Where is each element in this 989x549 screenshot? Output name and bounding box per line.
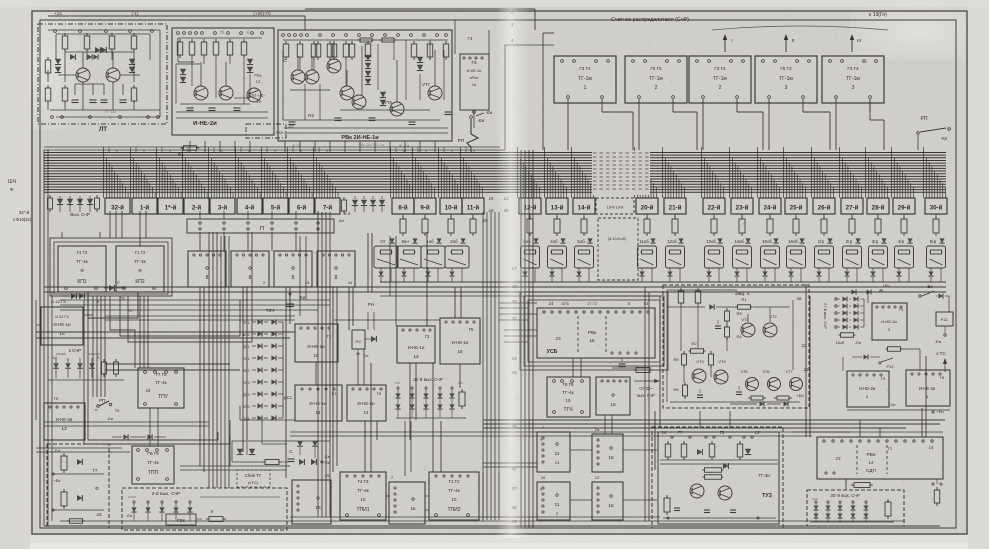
block РВк top pins: [282, 34, 285, 37]
ТУЗ mid resistors stacked: [703, 469, 705, 471]
diode row box к СчР: [48, 356, 126, 386]
block ЛТ extra wires: [55, 34, 57, 60]
block Ф 16 (15): [292, 480, 331, 524]
wire verticals under Ф-8 block 1: [203, 287, 205, 472]
tap fan wires from bus to boxes: [106, 158, 108, 198]
node box 24-й: [759, 198, 781, 214]
node box 1-й: [132, 198, 157, 214]
resistor and cap Сбой ТУ: [232, 461, 262, 463]
transistor Q1 ТУЗ: [690, 484, 704, 498]
wire right cluster stubs: [570, 449, 592, 451]
block РВк extra wires: [283, 39, 448, 41]
block И-НЕ-2и diodes: [180, 69, 186, 75]
wires upper mid verticals: [294, 232, 296, 324]
long collector wires below cells: [380, 281, 946, 283]
arrow output III: [851, 36, 853, 52]
block Ф 16 d: [592, 482, 623, 520]
wires Г5 block: [454, 20, 456, 54]
node box 28-й: [867, 198, 889, 214]
node box 26-й: [813, 198, 835, 214]
block РВи 14 СДП: [817, 437, 943, 479]
transistor VT2 in ЛТ: [106, 68, 120, 82]
dashed block 30'-й вых СчР: [807, 490, 904, 526]
ТУЗ diodes: [697, 449, 702, 455]
block ТПИ1: [340, 472, 386, 520]
wire trunk main right 520-535: [520, 150, 522, 528]
node box 21-й: [664, 198, 686, 214]
wires right column verticals: [805, 288, 807, 410]
block И-НЕ-2и capacitors: [187, 107, 194, 109]
Защ bottom resistors: [748, 397, 751, 399]
resistor mid: [710, 351, 712, 354]
block х Г6: [88, 292, 138, 318]
block Ф 16 right: [596, 377, 630, 415]
block ТУЗ inner solid border: [658, 432, 779, 524]
diode group 32-й вых: [397, 387, 399, 389]
node box 8-й: [392, 198, 414, 214]
wire horizontals 460s right: [483, 462, 537, 464]
wire trunk П extra: [220, 236, 222, 488]
node box 12-й: [519, 198, 541, 214]
block РВк resistors row: [285, 41, 287, 44]
wire loop nest left-center 5: [128, 232, 252, 342]
block П: [187, 219, 334, 233]
block ЛТ lower resistors: [64, 85, 66, 88]
wire across 296 right: [660, 295, 946, 297]
block ЛТ outline: [38, 24, 167, 124]
ТУЗ horizontal rails: [660, 459, 778, 461]
tap fan wires rising above bus: [108, 147, 110, 153]
brace over arrows: [712, 26, 888, 30]
capacitor -Еи at top center: [289, 296, 291, 302]
transistor VT4b in И-НЕ-2и: [247, 88, 261, 102]
node box 2-й: [184, 198, 209, 214]
diode group between 7-й and 8-й: [343, 197, 345, 200]
cell 824: [815, 246, 834, 268]
cell 852: [843, 246, 862, 268]
wire loop nest left-center 4: [120, 296, 240, 336]
block Г2 И-НЕ-1и 13: [397, 326, 435, 363]
block Г5 И-НЕ-1и outline: [460, 54, 489, 110]
block ТГ-1м 5 (СчР): [822, 56, 884, 103]
node box 15-й...19-й dashed: [596, 198, 634, 214]
block Г1 И-НЕ-1и 15: [295, 324, 338, 362]
node box 7-й: [315, 198, 340, 214]
wire run into Г1 block from left: [36, 331, 295, 333]
transistor VT3 in И-НЕ-2и: [194, 86, 208, 100]
wire horizontals left of УСБ: [499, 302, 537, 304]
block УСБ: [537, 308, 655, 358]
Защ diode left: [709, 304, 714, 309]
wires under Ф-8 blocks: [188, 291, 355, 293]
wire from РЧ down: [357, 356, 359, 385]
transistor VT4 in И-НЕ-2и: [219, 86, 233, 100]
block ТГ-1м 2 (СчР): [625, 56, 687, 103]
Защ bottom diodes: [760, 402, 765, 407]
resistor R3: [726, 308, 728, 311]
transistor VT5d: [340, 86, 354, 100]
transistor VT1: [741, 323, 755, 337]
wire verticals 460 region: [454, 287, 456, 318]
wire СчР right exit: [869, 99, 871, 120]
wire РВк to bus left: [189, 141, 191, 152]
block РВк internal wires: [282, 50, 284, 120]
node box 9-й: [414, 198, 436, 214]
wire bundle left vertical edge: [43, 150, 45, 526]
cell 878: [869, 246, 888, 268]
wires bottom right horizontals: [480, 440, 537, 442]
node box 10-й: [440, 198, 462, 214]
relay РЗК: [166, 514, 196, 525]
block РВк capacitors: [289, 121, 296, 123]
resistor before Р12: [886, 348, 888, 350]
node box 27-й: [841, 198, 863, 214]
cell 433: [421, 246, 445, 268]
wire loop around КП blocks: [50, 238, 172, 296]
diode Р12 line: [864, 355, 869, 360]
wire loop nest left-center 3: [110, 296, 135, 368]
block РВк diode column: [365, 55, 371, 61]
wire loop nest left-center 2: [84, 300, 230, 444]
cell 457: [445, 246, 469, 268]
resistor 30'-й вых: [887, 499, 889, 502]
wire verticals under Ф-8 block 2: [246, 287, 248, 440]
wires Сбой ТУ corridor: [231, 441, 233, 462]
dashed omission box below 15-19: [598, 218, 638, 280]
wires РН area verticals: [367, 312, 369, 330]
wires mid-bottom joins: [229, 420, 231, 466]
block Ф-8 #2: [231, 251, 269, 287]
diodes above ТПП: [123, 434, 128, 439]
wire trunk П down: [208, 232, 210, 488]
node box 25-й: [785, 198, 807, 214]
wire trunk center-left vertical: [317, 212, 319, 517]
wire left horizontals y448: [36, 447, 122, 449]
wire П pins down to Ф-8: [199, 232, 201, 251]
cell 796: [787, 246, 806, 268]
resistor below РВи: [851, 484, 854, 486]
wire top rail to RVk: [305, 8, 535, 10]
bus collector wires above: [44, 146, 500, 148]
wires into КП: [65, 211, 67, 246]
wires trunk to УСБ left: [504, 329, 537, 331]
relay Р13: [948, 296, 950, 312]
transistor VT1 in ЛТ: [76, 68, 90, 82]
wires П to boxes: [199, 211, 201, 219]
transistor VT5b: [305, 70, 319, 84]
wire loop nest left-center 1: [88, 296, 218, 440]
transistor VT7: [428, 86, 442, 100]
wire verticals under Ф-8 block 3: [289, 287, 291, 324]
cell 770: [761, 246, 780, 268]
wire loop around УСБ outer: [524, 296, 664, 366]
diodes left of Сбой ТУ: [237, 449, 243, 455]
wires lower connections a: [180, 465, 230, 467]
block ЛТ internal resistors: [64, 33, 66, 36]
resistor R1 below И-НЕ-2и: [181, 147, 184, 149]
block Ф 11 b: [537, 482, 570, 520]
wire verticals under Ф-8 block 4: [332, 287, 334, 472]
node box 30-й: [925, 198, 947, 214]
wire verticals РВи up: [805, 284, 807, 437]
node box 5-й: [263, 198, 288, 214]
transistor VT5a: [291, 70, 305, 84]
transistor VT5c: [327, 59, 341, 73]
block КП2: [116, 246, 164, 292]
node box 20-й: [636, 198, 658, 214]
wires horizontal across under П: [230, 315, 480, 317]
wires Защ down: [699, 411, 701, 427]
wires bottom trunk joins: [482, 472, 484, 521]
block Ф-8 #16: [317, 251, 355, 287]
block ТПП: [132, 446, 174, 484]
block Г6 И-НЕ-2и 14: [347, 385, 386, 421]
cell 647: [638, 246, 657, 268]
transistor VT2: [763, 323, 777, 337]
block РВк horizontal resistors: [357, 39, 360, 41]
node box 29-й: [893, 198, 915, 214]
wires lower horizontals 2: [122, 439, 180, 441]
wires П heavy pair down: [367, 233, 369, 292]
node box 23-й: [731, 198, 753, 214]
speckle noise: [253, 295, 254, 296]
wire РВи bottom to 30 box: [845, 479, 847, 490]
wire verticals Защ to ТУЗ: [659, 296, 661, 427]
block ЛТ wires: [48, 29, 160, 31]
transistor Q2 ТУЗ: [718, 486, 732, 500]
block ЛТ capacitors: [72, 99, 79, 101]
diodes in 2-й вых: [133, 501, 135, 503]
wires left cluster a: [36, 324, 41, 326]
Защ internal wires: [666, 290, 668, 402]
block Ф-8 #1: [188, 251, 226, 287]
wires ТПУ to ТПП verticals: [149, 408, 151, 446]
arrow output II: [785, 36, 787, 52]
node box 13-й: [546, 198, 568, 214]
wire ТПИ interconnect: [386, 495, 389, 497]
diode group left of 32-й box: [49, 195, 51, 198]
transistor VT6: [390, 102, 404, 116]
transistor VT5e: [352, 95, 366, 109]
block И-НЕ-2и wires: [177, 38, 179, 62]
dashed omission zone over bus: [592, 151, 650, 195]
horizontal bus band wires: [44, 152, 946, 154]
cell 386: [374, 246, 398, 268]
wire trunk left cluster: [92, 296, 94, 397]
cell 714: [705, 246, 724, 268]
block Г6 И-НЕ-2и lower: [906, 370, 950, 406]
wire horizontals y432-438 left half: [290, 431, 850, 433]
block Защ.4 dashed outline: [663, 285, 809, 408]
transistor VT3: [692, 369, 706, 383]
horizontal long wires bottom: [290, 516, 660, 518]
wires 2-й вых: [196, 518, 202, 520]
wire verticals center 350: [348, 287, 350, 330]
block ТПИ2: [429, 472, 479, 520]
wires УСБ to ТГЧ: [572, 358, 574, 377]
block ТГ-1м 4 (СчР): [755, 56, 817, 103]
wire trunk mid 480-500: [482, 212, 484, 520]
block РВк 2И-НЕ-1и outline: [278, 30, 452, 141]
block Ф 16 c: [592, 434, 623, 472]
wires right column net: [867, 292, 869, 303]
block ТГ-1м 3 (СчР): [689, 56, 751, 103]
wire left horizontals y422: [44, 421, 209, 423]
block И-НЕ-2и extra wires: [178, 37, 262, 39]
ТУЗ caps: [674, 507, 680, 509]
block ТГЧ: [547, 377, 590, 417]
wire top rail +13: [48, 15, 305, 17]
wire verticals center 365-380: [364, 421, 366, 472]
block И-НЕ-2и top pins: [177, 32, 180, 35]
block Ф 11 a: [537, 432, 570, 472]
wires КП to ТПУ verticals: [139, 296, 141, 368]
dashed block 2-й вых СчР: [122, 488, 287, 530]
cell 584: [575, 246, 594, 268]
node box 11-й: [462, 198, 484, 214]
block КП1: [58, 246, 106, 292]
wire СчР left entry: [505, 44, 554, 46]
block Г3 И-НЕ-2и 1: [872, 303, 907, 340]
wires horizontal mid-left y316: [105, 315, 295, 317]
wires under П right: [299, 236, 301, 316]
wires across center-left: [36, 419, 94, 421]
tall taps at box boundaries: [103, 147, 105, 198]
wires Ф blocks: [570, 449, 592, 451]
wires 32-1 boxes down: [139, 211, 141, 246]
block Г5 И-НЕ-1и 15 right: [440, 318, 480, 364]
diodes 30'-й вых: [815, 501, 817, 503]
diodes above х Г6: [109, 285, 114, 291]
node box 6-й: [289, 198, 314, 214]
cell 675: [666, 246, 685, 268]
diode array right 5 rows: [835, 298, 837, 300]
label Сбой ТУ: [237, 470, 270, 487]
diodes above cap C: [297, 441, 303, 446]
resistor column under boxes: [402, 214, 404, 219]
resistor R4: [726, 324, 728, 327]
cell 557: [548, 246, 567, 268]
arrow output I: [724, 36, 726, 52]
block И-НЕ-2и outline: [172, 28, 274, 135]
block Г3 И-НЕ-1и 14: [295, 385, 342, 421]
wires КП feeders: [109, 211, 111, 238]
wire horizontals right band y420s: [483, 419, 945, 421]
node box 3-й: [210, 198, 235, 214]
block Г5 И-НЕ-2и lower: [847, 371, 889, 407]
wire verticals center 430-440: [432, 363, 434, 472]
dashed block Ф 16 bottom-left: [47, 444, 109, 528]
Защ cap mid: [717, 320, 719, 324]
node box 22-й: [703, 198, 725, 214]
cell 742: [733, 246, 752, 268]
block ТГ-1м 1 (СчР): [554, 56, 616, 103]
node box 32-й: [105, 198, 130, 214]
transistor VT4: [714, 370, 728, 384]
block ТУЗ dashed outline: [652, 427, 783, 528]
block И-НЕ-2и sub box: [246, 124, 286, 138]
right pins РВи: [932, 483, 934, 485]
wire usb left: [520, 329, 528, 331]
cell 936: [927, 246, 946, 268]
wire bundle second left: [51, 292, 53, 521]
Защ caps bottom: [738, 386, 740, 390]
node box 4-й: [237, 198, 262, 214]
block Ф-8 #15: [274, 251, 312, 287]
cap and resistor below УСБ: [621, 358, 623, 362]
wires 32вых down to ТПИ2: [404, 421, 406, 476]
wire bottom mid horizontals: [180, 465, 290, 467]
wires ТУЗ left bundle: [644, 287, 646, 521]
Защ top-left resistors: [680, 288, 682, 291]
block Ф 16 (7): [389, 482, 425, 524]
wire Г blocks vertical joins: [315, 362, 317, 385]
cell 904: [895, 246, 914, 268]
wires СчР interconnect: [542, 33, 544, 150]
wires РВи top: [792, 431, 943, 433]
wire verticals right 926: [925, 356, 927, 437]
wires РВи feeders: [859, 420, 861, 437]
paper grain overlay: [0, 0, 1, 1]
node box 14-й: [573, 198, 595, 214]
block ЛТ diodes: [55, 59, 61, 65]
wires center bottom: [246, 441, 248, 455]
horizontal distribution wires upper-bottom half: [60, 299, 330, 301]
node box 1*-й: [158, 198, 183, 214]
ТУЗ resistors: [667, 441, 669, 444]
resistor below diode array: [839, 334, 841, 336]
cell 530: [521, 246, 540, 268]
wires x370 vertical: [389, 236, 391, 296]
wire loops upper right-left: [528, 300, 660, 362]
block И-НЕ-2и resistors: [179, 39, 181, 42]
cell 409: [397, 246, 421, 268]
wires Ф16 right verticals: [611, 415, 613, 434]
wire Г5 blocks to bus: [461, 110, 463, 152]
arrow into Защ: [634, 380, 658, 382]
ТУЗ bottom wires: [663, 517, 776, 519]
block ТПУ: [138, 368, 184, 408]
